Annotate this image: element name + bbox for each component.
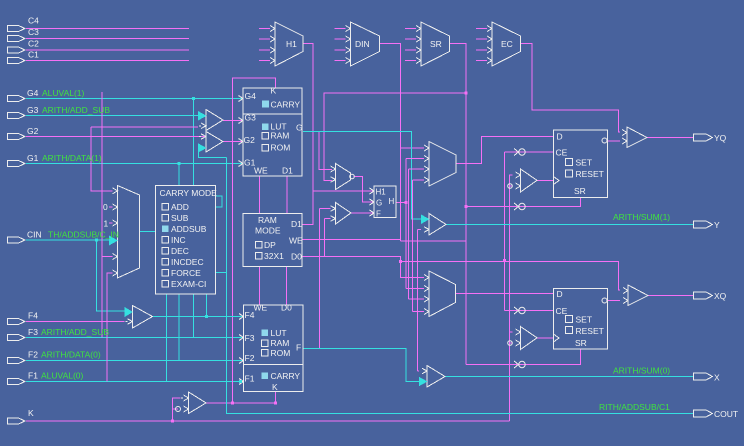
svg-text:1: 1	[104, 219, 109, 229]
svg-text:F2: F2	[28, 350, 38, 360]
pin arrows H box	[370, 188, 375, 216]
wire H1 mux output net: drop x313, H1 pin, D1 pin	[302, 44, 374, 225]
input pin F2	[8, 357, 26, 363]
svg-text:RAM: RAM	[271, 338, 290, 348]
svg-text:CARRY: CARRY	[271, 100, 301, 110]
wire D0-to-H riser	[325, 219, 331, 257]
box RAM MODE	[243, 214, 303, 267]
svg-text:K: K	[271, 86, 277, 96]
svg-text:F1: F1	[28, 371, 38, 381]
svg-text:G4: G4	[27, 88, 39, 98]
junction CE riser on EC distribution line	[503, 259, 506, 262]
wire F1 input	[26, 381, 244, 383]
wire G-to-H riser (feeds upper-H-mux in1)	[319, 132, 332, 169]
svg-text:MODE: MODE	[255, 226, 281, 236]
wire riser x408.5: YQ-mux in3 to XQ-mux in3	[409, 169, 425, 299]
box CARRY MODE	[156, 186, 218, 295]
wire G3 net	[26, 115, 206, 117]
svg-text:DIN: DIN	[355, 39, 370, 49]
wire H net: H output, riser x406, feeds YQ-mux in2 and XQ-mux in2	[396, 159, 424, 289]
junction H output on H riser	[405, 201, 408, 204]
output pin X	[694, 373, 713, 380]
svg-text:F4: F4	[245, 310, 255, 320]
wire SR mux output net: riser x466, branch y93, FF SR feeds	[324, 44, 580, 365]
svg-text:G1: G1	[27, 153, 39, 163]
svg-text:ADDSUB: ADDSUB	[171, 224, 207, 234]
svg-text:D1: D1	[291, 219, 302, 229]
wire carry box to COUT riser stub	[216, 271, 227, 273]
svg-text:G: G	[296, 123, 303, 133]
mux XQ (FF2 D source)	[424, 271, 456, 317]
wire C3	[26, 38, 189, 40]
svg-text:ARITH/ADD_SUB: ARITH/ADD_SUB	[41, 327, 109, 337]
input pin C4	[8, 25, 26, 31]
svg-text:C2: C2	[28, 39, 39, 49]
svg-text:ROM: ROM	[271, 348, 291, 358]
svg-text:RITH/ADDSUB/C1: RITH/ADDSUB/C1	[599, 402, 670, 412]
input pin CIN	[8, 237, 26, 243]
pin arrows G box	[239, 96, 244, 167]
wire K input: to riser x509.5 up to FF clock muxes	[26, 175, 513, 421]
mux H-lower (F input select)	[331, 203, 352, 225]
svg-text:F: F	[376, 210, 381, 219]
wire F4-mux output to F4 pin	[153, 316, 244, 318]
svg-text:ARITH/ADD_SUB: ARITH/ADD_SUB	[42, 105, 110, 115]
mux H1 (top)	[259, 22, 303, 66]
input pin G3	[8, 112, 26, 118]
wire Y-mux output to Y pin	[446, 224, 694, 226]
wire FF1 clock mux output	[537, 180, 554, 182]
wire D0 net: RAM MODE D0 to XQ-mux in1	[302, 257, 424, 278]
svg-text:TH/ADDSUB/C_IN: TH/ADDSUB/C_IN	[48, 230, 119, 240]
svg-text:FORCE: FORCE	[171, 268, 201, 278]
wire carry chain verticals below carry box	[167, 294, 207, 382]
wire K-mux output to F-LUT K pin and G-LUT K pin	[206, 78, 276, 403]
wire G1 net: input, riser to carry box, riser x179 to F2	[26, 164, 243, 361]
wire F-to-H riser	[320, 209, 331, 349]
output pin XQ	[694, 292, 713, 299]
svg-text:ADD: ADD	[171, 202, 189, 212]
svg-text:CARRY MODE: CARRY MODE	[160, 188, 218, 198]
svg-text:C1: C1	[28, 50, 39, 60]
svg-text:CARRY: CARRY	[271, 371, 301, 381]
wire FF1 SR glyph line	[527, 206, 534, 208]
svg-text:C4: C4	[28, 16, 39, 26]
wire D1 drop G-box to RAM MODE	[286, 176, 288, 214]
svg-text:EC: EC	[501, 39, 513, 49]
svg-text:0: 0	[103, 202, 108, 212]
junction CIN wire at riser x96	[95, 239, 98, 242]
svg-text:G3: G3	[245, 113, 257, 123]
svg-text:SET: SET	[576, 315, 593, 325]
svg-text:G: G	[376, 199, 382, 208]
svg-text:INCDEC: INCDEC	[171, 257, 204, 267]
svg-text:D1: D1	[282, 166, 293, 176]
input pin F1	[8, 378, 26, 384]
wire WE drop RAM MODE to F-box	[259, 267, 261, 306]
wire WE drop G-box to RAM MODE	[259, 176, 261, 214]
wire G net: G output to riser x411.5, down to Y-mux in1	[303, 132, 421, 220]
svg-text:D0: D0	[291, 252, 302, 262]
wire G4 net: input to G4 pin, riser to F3 line	[26, 99, 243, 338]
svg-text:D0: D0	[281, 303, 292, 313]
svg-text:SR: SR	[574, 186, 586, 196]
svg-text:EXAM-CI: EXAM-CI	[171, 279, 206, 289]
svg-text:WE: WE	[254, 166, 268, 176]
glyph FF2 CE invert	[514, 307, 525, 314]
svg-text:SR: SR	[575, 338, 587, 348]
mux FF1 clock select	[508, 169, 537, 192]
glyph FF2 SR invert	[514, 361, 525, 368]
svg-text:YQ: YQ	[714, 133, 727, 143]
wire const-0 stub	[109, 206, 113, 208]
wire carry box right elbow	[216, 196, 223, 207]
wire D0 drop RAM MODE to F-box	[286, 267, 288, 306]
svg-text:DP: DP	[264, 240, 276, 250]
junction SR riser at y93 branch	[465, 92, 468, 95]
svg-text:F3: F3	[245, 333, 255, 343]
mux X output select	[419, 366, 445, 388]
mux FF2 clock select	[508, 327, 537, 350]
mux EC (top)	[476, 22, 521, 66]
svg-text:CE: CE	[556, 306, 568, 316]
input pin C2	[8, 47, 26, 53]
svg-text:RESET: RESET	[576, 326, 604, 336]
wire COUT net: riser x226.5 and line to COUT pin	[227, 158, 694, 414]
svg-text:C3: C3	[28, 27, 39, 37]
svg-text:RAM: RAM	[271, 131, 290, 141]
wire riser x417.5: Y-mux in2 to X-mux in1	[418, 230, 422, 372]
input pin G4	[8, 95, 26, 101]
wire EC mux output net: to YQ buffer in1	[521, 44, 621, 133]
junction K-net at F-LUT K pin drop	[274, 402, 277, 405]
svg-text:X: X	[714, 373, 720, 383]
wire F3 input	[26, 337, 244, 339]
input pin G2	[8, 133, 26, 139]
junction K input at K-mux feed riser	[171, 420, 174, 423]
wire CIN net: input, riser x96 to F4 mux in1	[26, 240, 125, 311]
mux H-upper (G input select, inverting)	[331, 164, 355, 190]
wire G3-mux in2 net: corner at y127, riser to F4	[91, 127, 198, 191]
buffer XQ output	[623, 285, 648, 306]
svg-text:G2: G2	[244, 135, 256, 145]
svg-text:RESET: RESET	[576, 169, 604, 179]
svg-text:ALUVAL(1): ALUVAL(1)	[42, 88, 85, 98]
wire G2-mux output to G2 pin	[223, 141, 243, 143]
wire FF1 CE feed	[513, 151, 554, 153]
wire FF2 Q to XQ buffer in2	[608, 300, 621, 302]
input pin F3	[8, 334, 26, 340]
output pin YQ	[694, 134, 713, 141]
mux F4 select	[125, 306, 153, 329]
wire WE line from RAM MODE to jog and on to SR riser	[302, 240, 466, 242]
wire C4	[26, 28, 189, 30]
svg-text:ARITH/DATA(0): ARITH/DATA(0)	[41, 350, 101, 360]
wire tall-mux output to carry box	[140, 231, 156, 233]
pin arrows F box	[239, 314, 244, 385]
svg-text:DEC: DEC	[171, 246, 189, 256]
junction F1 wire near F-LUT pin	[239, 380, 242, 383]
wire F4 input	[26, 321, 125, 323]
svg-text:G3: G3	[27, 105, 39, 115]
svg-text:XQ: XQ	[714, 291, 727, 301]
glyph FF1 SR invert	[514, 203, 525, 210]
wire const-1 stub	[109, 222, 113, 224]
mux CIN tall	[109, 186, 140, 279]
mux SR (top)	[405, 22, 450, 66]
box H function generator	[374, 186, 396, 219]
svg-text:INC: INC	[171, 235, 186, 245]
wire C2	[26, 49, 189, 51]
wire XQ buffer output to XQ pin	[648, 295, 694, 297]
wire FF2 clock mux output	[537, 337, 554, 339]
svg-text:CIN: CIN	[27, 230, 42, 240]
svg-text:WE: WE	[289, 236, 303, 246]
wire G2 net	[26, 136, 206, 138]
svg-text:ARITH/SUM(1): ARITH/SUM(1)	[613, 212, 670, 222]
svg-text:H: H	[389, 197, 395, 206]
wire YQ-mux output to FF1 D	[456, 137, 554, 164]
svg-text:RAM: RAM	[258, 215, 277, 225]
buffer YQ output	[622, 127, 647, 148]
box G function generator	[243, 86, 303, 177]
svg-text:D: D	[557, 132, 563, 142]
svg-text:ROM: ROM	[271, 143, 291, 153]
mux K clock select	[176, 392, 207, 414]
wire lower-H-mux output to F pin of H box	[351, 212, 374, 214]
wire YQ buffer output to YQ pin	[647, 137, 694, 139]
svg-text:F1: F1	[245, 374, 255, 384]
svg-text:F3: F3	[28, 327, 38, 337]
wire tall-mux in5 riser from F1	[107, 273, 113, 382]
svg-text:Y: Y	[714, 220, 720, 230]
svg-text:SET: SET	[576, 158, 593, 168]
svg-text:COUT: COUT	[714, 409, 738, 419]
input pin K	[8, 418, 26, 424]
wire F net: F output to riser x406 down to X-mux in2	[303, 349, 419, 382]
wire tall-mux in4 riser x101.8	[102, 92, 113, 338]
wire X-mux output to X pin	[445, 376, 694, 378]
wire XQ-mux output to FF2 D	[456, 293, 554, 295]
svg-text:F4: F4	[28, 311, 38, 321]
svg-text:D: D	[557, 289, 563, 299]
mux YQ (FF1 D source)	[424, 142, 456, 187]
glyph FF1 CE invert	[514, 149, 525, 156]
flip-flop FF2	[554, 289, 608, 350]
mux DIN (top)	[335, 22, 380, 66]
output pin COUT	[694, 410, 713, 417]
wire G3-mux output to G3 pin	[223, 120, 243, 122]
output pin Y	[694, 221, 713, 228]
svg-text:LUT: LUT	[271, 328, 287, 338]
wire upper-H-mux output to G pin of H box	[354, 177, 375, 203]
wire riser x412.7: YQ-mux in4 to XQ-mux in4	[413, 180, 424, 312]
junction K-net at clock mux output	[231, 402, 234, 405]
wire tall-mux in1 riser from G3-mux-in2 net	[91, 127, 113, 191]
wire C1	[26, 60, 189, 62]
input pin F4	[8, 318, 26, 324]
svg-text:G2: G2	[27, 126, 39, 136]
svg-text:SUB: SUB	[171, 213, 189, 223]
svg-text:K: K	[272, 382, 278, 392]
svg-text:F: F	[296, 343, 301, 353]
flip-flop FF1	[554, 130, 608, 198]
junction G4 wire at riser x193.5	[192, 97, 195, 100]
svg-text:F2: F2	[245, 353, 255, 363]
svg-text:H1: H1	[376, 188, 387, 197]
wire FF1 Q to YQ buffer in2	[608, 140, 621, 142]
wire FF2 SR glyph line	[527, 364, 534, 366]
svg-text:WE: WE	[254, 303, 268, 313]
input pin C1	[8, 57, 26, 63]
junction SR riser at FF1 SR feed	[465, 205, 468, 208]
input pin G1	[8, 160, 26, 166]
svg-text:G4: G4	[245, 91, 257, 101]
box F function generator	[244, 303, 304, 393]
wire G2-mux in2 elbow from COUT riser	[198, 148, 227, 158]
svg-text:32X1: 32X1	[264, 251, 284, 261]
wire F2 input	[26, 360, 244, 362]
wire K-mux feed riser	[173, 398, 181, 421]
junction F4 pin line at carry vertical	[205, 315, 208, 318]
mux G2 select	[198, 132, 223, 153]
wire DIN mux output net: drop x400.5, tap to YQ-mux in1, down to WE jog	[380, 44, 425, 242]
junction G1 wire at riser x179	[178, 162, 181, 165]
svg-text:SR: SR	[430, 39, 442, 49]
mux Y output select	[421, 214, 446, 236]
wire EC distribution line to CE pins and XQ buffer in1	[401, 152, 621, 311]
svg-text:CE: CE	[556, 148, 568, 158]
svg-text:K: K	[28, 408, 34, 418]
wire FF2 CE feed	[513, 310, 554, 312]
mux G3 select	[198, 110, 223, 131]
svg-text:H1: H1	[286, 39, 297, 49]
input pin C3	[8, 35, 26, 41]
svg-text:ARITH/SUM(0): ARITH/SUM(0)	[613, 366, 670, 376]
junction EC distribution at D0 jog	[399, 260, 402, 263]
svg-text:ARITH/DATA(1): ARITH/DATA(1)	[42, 153, 102, 163]
svg-text:ALUVAL(0): ALUVAL(0)	[41, 371, 84, 381]
